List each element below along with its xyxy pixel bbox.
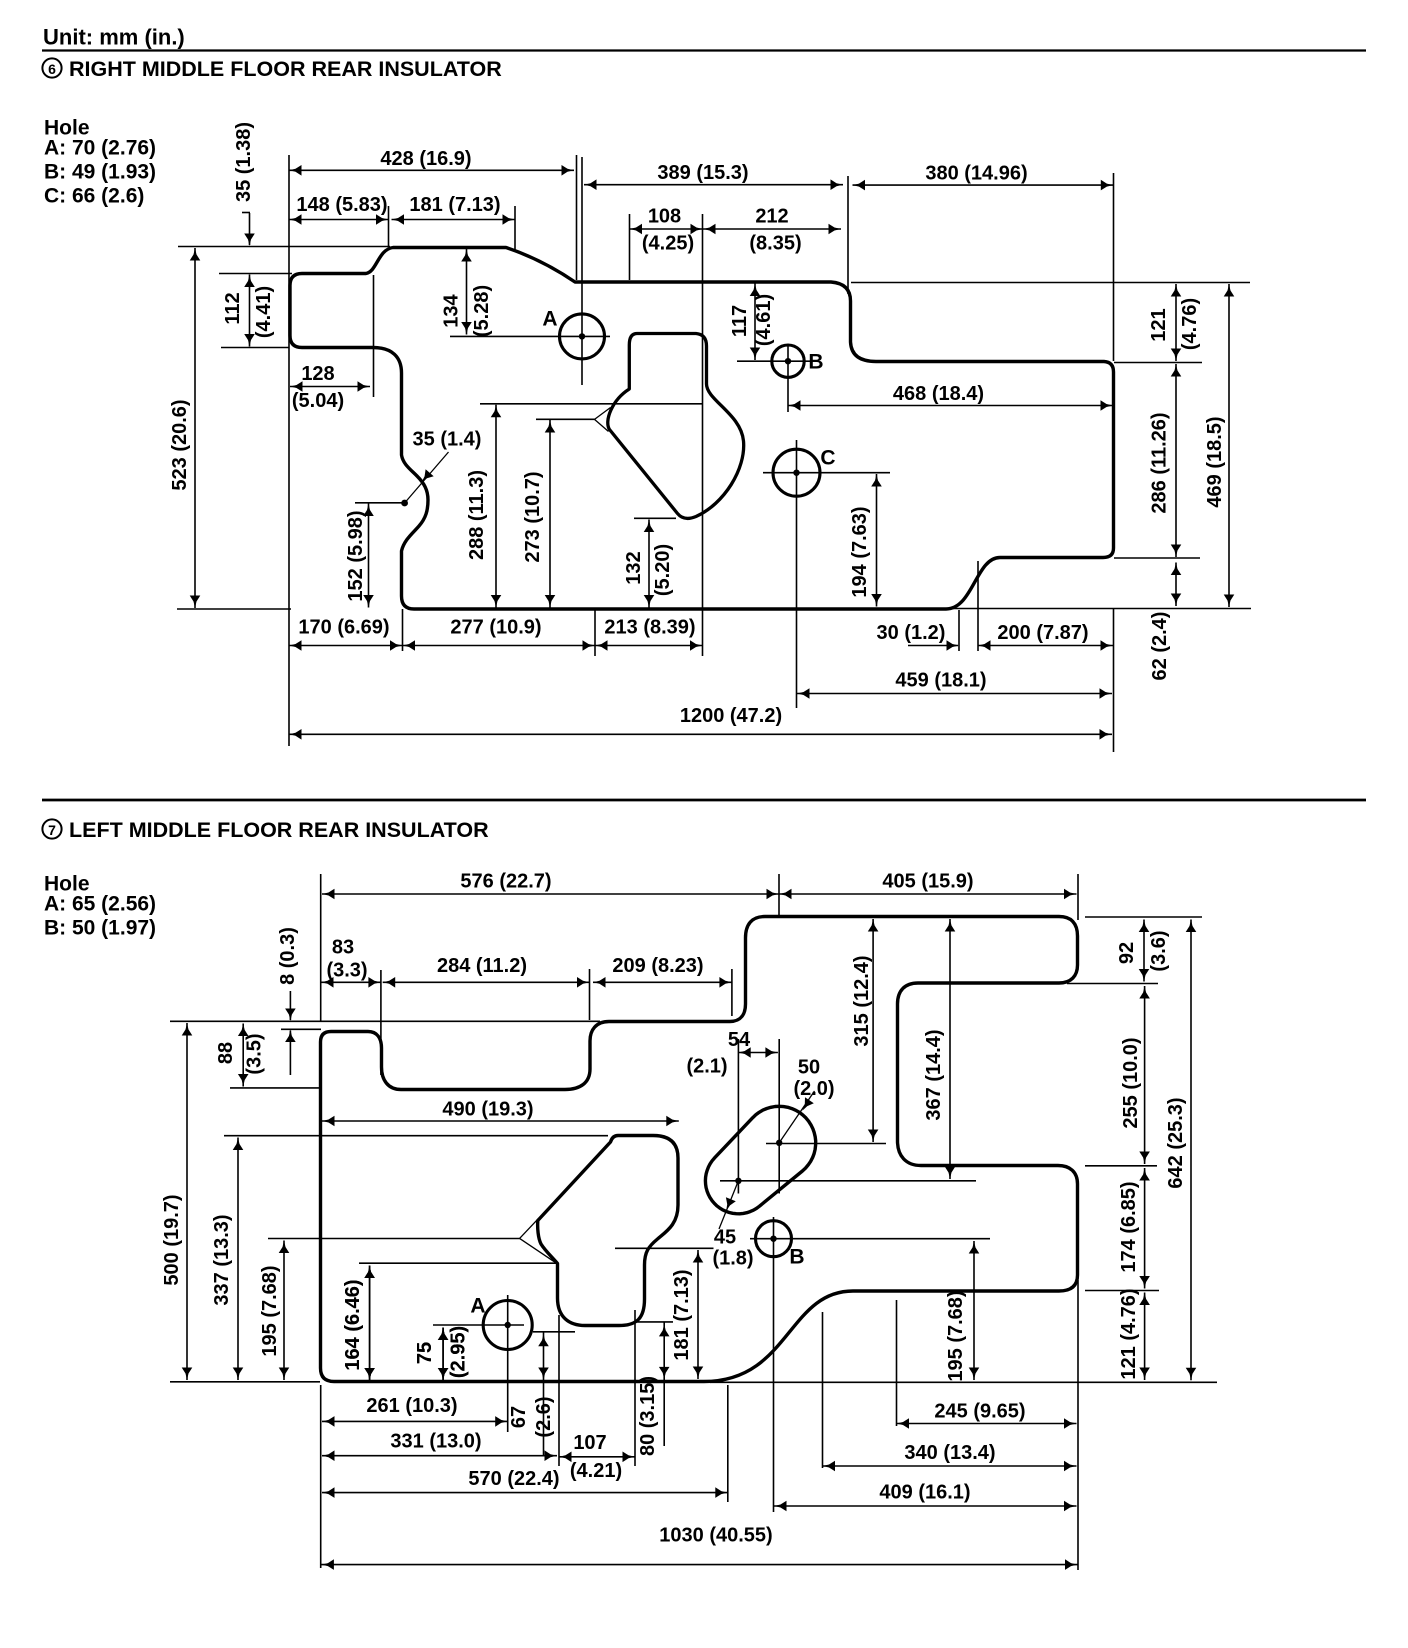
svg-text:83: 83 (332, 937, 354, 959)
dim 194 (7.63) (876, 474, 878, 607)
svg-text:107: 107 (573, 1432, 606, 1454)
section 6 circled number (42, 58, 61, 77)
svg-text:469 (18.5): 469 (18.5) (1204, 416, 1226, 507)
extension y917 right (1085, 916, 1202, 918)
svg-text:288 (11.3): 288 (11.3) (466, 470, 488, 560)
dim 112 (4.41) (249, 275, 251, 347)
dim 500 (19.7) (186, 1023, 188, 1380)
extension line right edge top x1113 (1113, 173, 1115, 361)
hole B centerlines diagram 2 (750, 1238, 990, 1240)
svg-text:367 (14.4): 367 (14.4) (923, 1029, 945, 1120)
extension line y419 wedge (536, 418, 595, 420)
svg-text:490 (19.3): 490 (19.3) (442, 1099, 533, 1121)
dim 164 (6.46) (369, 1266, 371, 1381)
svg-text:35 (1.4): 35 (1.4) (413, 429, 482, 451)
dim 570 (22.4) (322, 1492, 728, 1494)
svg-text:75: 75 (414, 1342, 436, 1364)
svg-text:121: 121 (1148, 308, 1170, 341)
hole B diagram 2 (756, 1221, 792, 1257)
svg-text:45: 45 (714, 1227, 736, 1249)
svg-text:B: 49 (1.93): B: 49 (1.93) (44, 161, 156, 184)
extension line x388 top (388, 206, 390, 246)
hole C diagram 1 (773, 449, 820, 496)
hole C centerlines (763, 472, 890, 474)
svg-text:Unit: mm (in.): Unit: mm (in.) (43, 25, 185, 50)
svg-text:(3.6): (3.6) (1148, 930, 1170, 971)
extension line x629 cutout left (629, 214, 631, 280)
dim 428 (16.9) (289, 169, 574, 171)
dim 409 (16.1) (774, 1505, 1077, 1507)
svg-text:570 (22.4): 570 (22.4) (468, 1468, 559, 1490)
svg-text:6: 6 (48, 61, 56, 77)
dim 62 (2.4) (1175, 563, 1177, 607)
extension bottom right y1382 (710, 1381, 1217, 1383)
extension top edge y1021 (170, 1020, 600, 1022)
svg-text:195 (7.68): 195 (7.68) (259, 1265, 281, 1356)
extension tab top y1029 (281, 1028, 321, 1030)
extension line bottom left y609 (177, 608, 291, 610)
extension line x595 bottom (594, 609, 596, 656)
dim 261 (10.3) (322, 1420, 508, 1422)
extension x822 S-curve (822, 1312, 824, 1468)
extension line y558 right (1114, 557, 1200, 559)
dim 405 (15.9) (779, 893, 1077, 895)
svg-text:(2.1): (2.1) (686, 1056, 727, 1078)
svg-text:(4.61): (4.61) (753, 294, 775, 346)
extension line y347 left (221, 347, 289, 349)
svg-text:405 (15.9): 405 (15.9) (882, 871, 973, 893)
dim 30 (1.2) (908, 645, 958, 647)
svg-text:212: 212 (755, 206, 788, 228)
dim 152 (5.98) (368, 504, 370, 608)
dim 380 (14.96) (853, 184, 1114, 186)
dim 315 (12.4) (872, 919, 874, 1142)
svg-text:468 (18.4): 468 (18.4) (893, 383, 984, 405)
extension x635 cutout right lower (634, 1310, 636, 1466)
dim 200 (7.87) (978, 645, 1113, 647)
svg-text:331 (13.0): 331 (13.0) (390, 1431, 481, 1453)
hole A diagram 1 (560, 314, 605, 359)
dim 54 (2.1) (738, 1052, 778, 1054)
svg-text:(2.6): (2.6) (533, 1396, 555, 1437)
svg-text:B: B (789, 1246, 804, 1269)
svg-text:A: A (470, 1295, 485, 1318)
svg-text:128: 128 (301, 363, 334, 385)
dim 134 (5.28) (466, 249, 468, 335)
svg-text:500 (19.7): 500 (19.7) (161, 1194, 183, 1285)
extension line y502 notch center (355, 502, 404, 504)
extension y1165 right (1085, 1165, 1157, 1167)
svg-text:67: 67 (508, 1406, 530, 1428)
extension x731 step (731, 969, 733, 1016)
svg-text:B: 50 (1.97): B: 50 (1.97) (44, 917, 156, 940)
extension hole A bottom line y1331 (533, 1331, 575, 1333)
dim 331 (13.0) (322, 1455, 557, 1457)
svg-text:164 (6.46): 164 (6.46) (342, 1279, 364, 1370)
dim 174 (6.85) (1144, 1168, 1146, 1289)
dim 181 (7.13) (697, 1250, 699, 1379)
extension line x373 step (373, 275, 375, 397)
svg-text:B: B (808, 351, 823, 374)
extension line x402 bottom (402, 609, 404, 651)
svg-text:A: A (542, 308, 557, 331)
extension cutout corner y1263 (359, 1262, 557, 1264)
svg-text:213 (8.39): 213 (8.39) (604, 617, 695, 639)
extension line x978 bottom step (977, 561, 979, 651)
dim 92 (3.6) (1143, 920, 1145, 982)
svg-text:459 (18.1): 459 (18.1) (895, 670, 986, 692)
dim 468 (18.4) (788, 405, 1113, 407)
svg-text:389 (15.3): 389 (15.3) (657, 162, 748, 184)
dim 67 (2.6) (543, 1332, 545, 1455)
svg-text:(5.04): (5.04) (292, 390, 344, 412)
svg-text:277 (10.9): 277 (10.9) (450, 617, 541, 639)
dim 245 (9.65) (897, 1423, 1077, 1425)
svg-text:50: 50 (798, 1057, 820, 1079)
svg-text:273 (10.7): 273 (10.7) (522, 471, 544, 562)
extension line y273 left (219, 273, 292, 275)
dim 164 (6.46) (369, 1266, 371, 1381)
dim 107 (4.21) (559, 1456, 635, 1458)
svg-text:194 (7.63): 194 (7.63) (849, 506, 871, 597)
svg-text:1200 (47.2): 1200 (47.2) (680, 705, 782, 727)
dim 286 (11.26) (1175, 364, 1177, 557)
dim 108 (4.25) (630, 228, 704, 230)
hole A centerlines (450, 335, 610, 337)
hole B centerlines (737, 360, 812, 362)
svg-text:(1.8): (1.8) (712, 1248, 753, 1270)
extension x380 tab (380, 970, 382, 1075)
svg-text:523 (20.6): 523 (20.6) (169, 399, 191, 490)
separator line between diagrams (42, 799, 1366, 802)
svg-text:428 (16.9): 428 (16.9) (380, 148, 471, 170)
svg-text:(2.95): (2.95) (448, 1326, 470, 1378)
dim 1030 (40.55) (321, 1564, 1077, 1566)
extension cutout bottom y1321 (634, 1321, 673, 1323)
dim 576 (22.7) (322, 893, 779, 895)
dim 88 (3.5) (242, 1024, 244, 1087)
extension line y518 cutout bottom (634, 517, 676, 519)
svg-text:1030 (40.55): 1030 (40.55) (659, 1525, 772, 1547)
extension y1290 right (1085, 1290, 1159, 1292)
svg-text:C: C (820, 447, 835, 470)
svg-text:286 (11.26): 286 (11.26) (1149, 412, 1171, 513)
extension waist y1248 (615, 1247, 714, 1249)
extension right edge x1078 top (1077, 874, 1079, 920)
svg-text:(4.41): (4.41) (253, 286, 275, 338)
hole A centerlines diagram 2 (433, 1324, 524, 1326)
extension x589 recess (589, 969, 591, 1020)
svg-text:152 (5.98): 152 (5.98) (345, 510, 367, 601)
svg-text:245 (9.65): 245 (9.65) (934, 1401, 1025, 1423)
dim 213 (8.39) (595, 645, 703, 647)
extension line left main x289 (288, 155, 290, 746)
interior cutout diagram 1 (608, 334, 744, 519)
dim 212 (8.35) (703, 228, 841, 230)
svg-text:174 (6.85): 174 (6.85) (1118, 1181, 1140, 1272)
slot centerlines (737, 1039, 739, 1194)
extension line x515 top (514, 206, 516, 252)
svg-text:181 (7.13): 181 (7.13) (409, 194, 500, 216)
dim 273 (10.7) (549, 420, 551, 608)
extension line y282 right (851, 282, 1250, 284)
dim 195 (7.68) right (973, 1241, 975, 1380)
svg-text:642 (25.3): 642 (25.3) (1165, 1097, 1187, 1188)
dim 367 (14.4) (949, 919, 951, 1179)
svg-text:88: 88 (215, 1042, 237, 1064)
left insulator outline (321, 917, 1078, 1382)
svg-text:209 (8.23): 209 (8.23) (612, 955, 703, 977)
extension y983 right (1067, 983, 1158, 985)
svg-text:A: 65 (2.56): A: 65 (2.56) (44, 893, 156, 916)
svg-text:A: 70 (2.76): A: 70 (2.76) (44, 137, 156, 160)
svg-text:576 (22.7): 576 (22.7) (460, 871, 551, 893)
extension bottom left y1381 (170, 1381, 320, 1383)
svg-text:54: 54 (728, 1029, 751, 1051)
dim 80 (3.15) (663, 1322, 665, 1446)
svg-text:(8.35): (8.35) (749, 233, 801, 255)
wedge point notch diagram 1 (595, 408, 611, 420)
extension right edge x1078 bottom (1077, 1280, 1079, 1570)
dim 459 (18.1) (797, 693, 1112, 695)
dim 284 (11.2) (383, 981, 590, 983)
extension cutout top y1135 (224, 1135, 608, 1137)
dim 288 (11.3) (495, 405, 497, 608)
dim 523 (20.6) (194, 248, 196, 608)
slot hole 50/45 (705, 1106, 815, 1214)
extension line y362 right (1114, 362, 1202, 364)
svg-text:(3.3): (3.3) (326, 960, 367, 982)
dim 490 (19.3) (322, 1120, 679, 1122)
dim 75 (2.95) (442, 1328, 444, 1381)
svg-text:340 (13.4): 340 (13.4) (904, 1442, 995, 1464)
right insulator outline (290, 248, 1114, 610)
extension recess floor y1088 (230, 1087, 321, 1089)
svg-text:117: 117 (729, 305, 751, 337)
extension left edge top x320 (320, 874, 322, 1021)
dim 132 (5.20) (648, 520, 650, 608)
dim 170 (6.69) (289, 645, 403, 647)
svg-text:148 (5.83): 148 (5.83) (296, 194, 387, 216)
extension x779 top (778, 874, 780, 916)
dim 389 (15.3) (584, 184, 843, 186)
dim 148 (5.83) (289, 219, 389, 221)
extension x559 cutout left lower (558, 1315, 560, 1466)
interior cutout diagram 2 (538, 1136, 678, 1326)
dim 8 (0.3) (289, 991, 291, 1020)
svg-text:30 (1.2): 30 (1.2) (877, 622, 946, 644)
extension x896 S-curve end (896, 1300, 898, 1426)
dim 117 (4.61) (754, 284, 756, 361)
extension line right edge bottom x1113 (1113, 609, 1115, 752)
svg-text:62 (2.4): 62 (2.4) (1149, 612, 1171, 681)
dim 255 (10.0) (1144, 986, 1146, 1164)
wedge point notch diagram 2 (520, 1219, 538, 1238)
svg-text:284 (11.2): 284 (11.2) (437, 955, 527, 977)
svg-text:C: 66 (2.6): C: 66 (2.6) (44, 185, 144, 208)
dim 340 (13.4) (823, 1465, 1077, 1467)
dim 75 (2.95) (442, 1328, 444, 1381)
dim 83 (3.3) (321, 981, 381, 983)
svg-text:108: 108 (648, 206, 681, 228)
svg-text:380 (14.96): 380 (14.96) (925, 163, 1027, 185)
svg-text:409 (16.1): 409 (16.1) (879, 1482, 970, 1504)
dim 277 (10.9) (403, 645, 596, 647)
svg-text:181 (7.13): 181 (7.13) (671, 1269, 693, 1360)
extension line x848 top (847, 176, 849, 294)
svg-text:112: 112 (222, 292, 244, 324)
dim 209 (8.23) (593, 981, 732, 983)
svg-text:315 (12.4): 315 (12.4) (851, 955, 873, 1046)
hole B diagram 1 (772, 345, 804, 377)
dim 1200 (47.2) (289, 733, 1112, 735)
svg-text:(5.20): (5.20) (652, 544, 674, 596)
svg-text:255 (10.0): 255 (10.0) (1120, 1037, 1142, 1128)
svg-text:80 (3.15): 80 (3.15) (637, 1376, 659, 1456)
svg-text:337 (13.3): 337 (13.3) (211, 1214, 233, 1305)
section 7 circled number (42, 819, 61, 838)
extension line top edge y246 (178, 246, 390, 248)
svg-text:(5.28): (5.28) (471, 285, 493, 337)
dim 35 (1.38) (249, 213, 251, 245)
extension line y608 right (947, 608, 1251, 610)
dim 121 (4.76) diagram 1 (1175, 284, 1177, 361)
svg-text:261 (10.3): 261 (10.3) (366, 1395, 457, 1417)
dim 337 (13.3) (237, 1138, 239, 1381)
svg-text:RIGHT MIDDLE FLOOR REAR INSULA: RIGHT MIDDLE FLOOR REAR INSULATOR (69, 57, 502, 81)
svg-text:132: 132 (623, 551, 645, 584)
svg-text:7: 7 (48, 822, 56, 838)
extension line x959 bottom step (958, 610, 960, 651)
dim 469 (18.5) (1228, 284, 1230, 607)
svg-text:(4.25): (4.25) (642, 233, 694, 255)
svg-text:170 (6.69): 170 (6.69) (298, 617, 389, 639)
extension line x576 top (576, 155, 578, 280)
svg-text:LEFT MIDDLE FLOOR REAR INSULAT: LEFT MIDDLE FLOOR REAR INSULATOR (69, 818, 489, 842)
svg-text:8 (0.3): 8 (0.3) (277, 927, 299, 985)
extension left edge bottom x320 (320, 1385, 322, 1568)
svg-text:134: 134 (441, 293, 463, 327)
extension wedge line y1238 (268, 1238, 520, 1240)
header underline (42, 49, 1366, 51)
svg-text:(3.5): (3.5) (244, 1033, 266, 1074)
svg-text:92: 92 (1116, 942, 1138, 964)
dim 642 (25.3) (1190, 920, 1192, 1381)
dim 195 (7.68) left (283, 1241, 285, 1381)
svg-text:(2.0): (2.0) (793, 1078, 834, 1100)
svg-text:195 (7.68): 195 (7.68) (945, 1290, 967, 1381)
extension x727 bottom S start (727, 1385, 729, 1502)
dim 121 (4.76) diagram 2 (1144, 1293, 1146, 1381)
svg-text:(4.76): (4.76) (1179, 298, 1201, 350)
dim 128 (5.04) (290, 386, 370, 388)
svg-text:(4.21): (4.21) (570, 1460, 622, 1482)
extension line y403 cutout (480, 403, 703, 405)
svg-text:35 (1.38): 35 (1.38) (233, 122, 255, 202)
hole A diagram 2 (483, 1301, 532, 1350)
dim 181 (7.13) (392, 219, 516, 221)
extension line x702 cutout right long (702, 214, 704, 656)
slot center marks (776, 1140, 782, 1146)
svg-text:200 (7.87): 200 (7.87) (997, 622, 1088, 644)
svg-text:121 (4.76): 121 (4.76) (1118, 1288, 1140, 1379)
